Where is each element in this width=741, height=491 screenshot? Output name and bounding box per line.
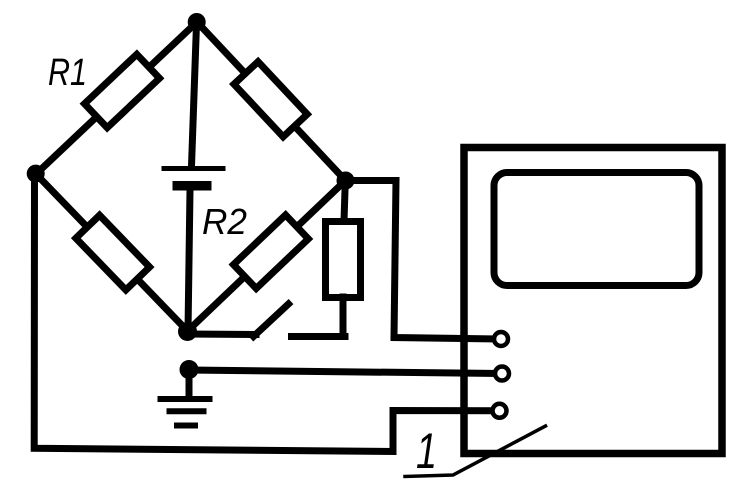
ground bar 2 [170,408,204,414]
ground lead from lower junction [186,370,193,399]
terminal 1 [494,332,508,346]
ground bar 3 [177,423,195,429]
ground bar 1 [161,396,210,402]
battery negative lead to bottom node [188,190,190,331]
node: bridge bottom junction [178,322,197,341]
switch blade [254,304,289,337]
terminal 3 [493,404,507,418]
battery long plate (+) [164,166,223,171]
battery short plate (-) [173,181,212,191]
oscilloscope box outline [464,148,722,454]
leader line for label 1 [405,426,546,477]
svg-text:R1: R1 [48,52,87,94]
svg-text:R2: R2 [202,201,247,242]
wire: bridge arm left node to top node [36,22,197,174]
wire: bridge arm top node to right node [197,22,346,181]
node: bridge top junction [188,13,206,31]
wire: bridge arm bottom node to right node [188,181,346,332]
wire: switch to vertical resistor bottom lead [292,333,346,340]
wire: right node down to vertical resistor top [344,181,345,222]
battery positive lead from top node [192,24,197,166]
resistor R2 (lower-right bridge arm) [233,215,308,289]
terminal 2 [495,367,509,381]
wire: right node to scope terminal 1 (top route) [346,181,497,340]
node: ground junction [180,360,199,379]
resistor lower-left bridge arm [76,215,150,290]
oscilloscope screen [494,173,699,286]
resistor (vertical, galvanometer branch) [326,222,361,298]
wire: vertical resistor bottom lead [340,297,347,335]
svg-text:1: 1 [416,423,437,479]
node: bridge left junction [27,165,45,183]
resistor R1 (upper-left bridge arm) [85,54,160,127]
node: bridge right junction [337,172,355,190]
wire: bottom node to switch [188,331,256,339]
wire: left node to scope terminal 3 (bottom route) [34,174,495,452]
wire: bridge arm left node to bottom node [36,174,188,331]
resistor upper-right bridge arm [234,62,307,137]
wire: lower junction to scope terminal 2 [189,370,497,374]
